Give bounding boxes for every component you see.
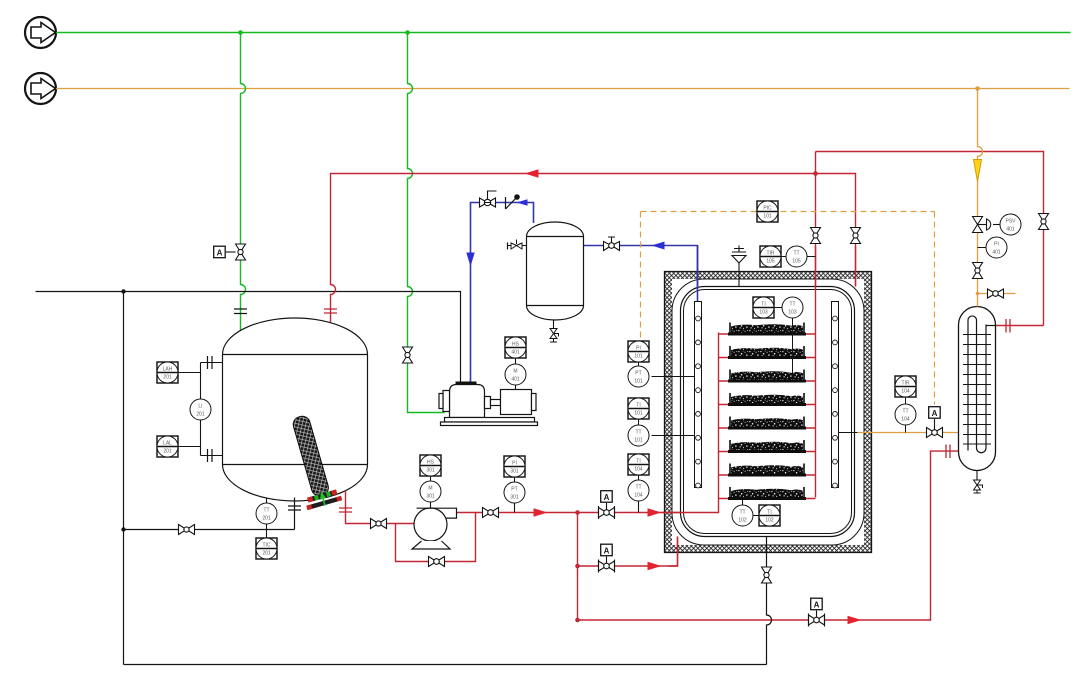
condenser E401 shell bbox=[959, 307, 996, 471]
svg-text:HS: HS bbox=[512, 342, 520, 348]
vessel: tank T201 bbox=[223, 318, 368, 501]
valve on bypass bbox=[429, 557, 445, 567]
instrument TT 101 bbox=[628, 425, 649, 446]
shelf tray 5 bbox=[719, 427, 816, 429]
instrument PI 301 bbox=[504, 456, 525, 482]
svg-text:TT: TT bbox=[793, 251, 799, 257]
svg-text:A: A bbox=[932, 409, 938, 418]
wire: green supply header bbox=[56, 32, 1071, 34]
svg-text:301: 301 bbox=[426, 467, 435, 473]
wire: green drop 1 to tank T201 (jumps orange header and black line) bbox=[241, 33, 246, 331]
svg-text:TI: TI bbox=[761, 302, 765, 308]
heater bundle in tank bbox=[282, 412, 342, 511]
vessel drain valve bbox=[553, 320, 555, 328]
svg-text:TI: TI bbox=[636, 403, 640, 409]
check valve on top loop bbox=[506, 195, 520, 209]
wire: red condenser top nozzle bbox=[996, 325, 1044, 327]
pump P301 (centrifugal) bbox=[412, 508, 457, 549]
svg-text:201: 201 bbox=[163, 374, 172, 380]
off-page connector (green supply) bbox=[25, 17, 56, 48]
shelf tray 8 bbox=[719, 498, 816, 500]
svg-text:104: 104 bbox=[634, 492, 643, 498]
instrument LI 201 bbox=[190, 399, 211, 420]
node: black tee at tank drain bbox=[121, 527, 125, 531]
instrument TIC 201 bbox=[256, 538, 277, 559]
valve on blue line bbox=[604, 237, 620, 251]
shelf tray 2 bbox=[719, 357, 816, 359]
node: red tee at 815,173 bbox=[813, 171, 818, 176]
svg-text:PIC: PIC bbox=[763, 206, 772, 212]
svg-text:PI: PI bbox=[994, 242, 999, 248]
instrument TIR 105 bbox=[760, 246, 781, 267]
valve on oven bottom drop bbox=[762, 567, 772, 583]
arrow blue to vessel bbox=[652, 242, 665, 250]
off-page connector (orange supply) bbox=[25, 73, 56, 104]
wire: black vacuum suction header bbox=[36, 292, 461, 383]
wire: red hot return header to tank (jumps black line) bbox=[331, 174, 856, 323]
svg-text:301: 301 bbox=[510, 468, 519, 474]
arrow blue small on top loop bbox=[517, 199, 528, 206]
svg-text:401: 401 bbox=[992, 249, 1001, 255]
svg-text:PT: PT bbox=[511, 487, 517, 493]
svg-text:A: A bbox=[604, 493, 610, 502]
svg-text:HS: HS bbox=[427, 460, 435, 466]
svg-text:104: 104 bbox=[634, 466, 643, 472]
wire: blue vacuum line vessel to oven bbox=[584, 246, 698, 302]
valve on tank drain bbox=[179, 525, 195, 535]
oven chamber bbox=[681, 287, 855, 537]
svg-text:101: 101 bbox=[634, 437, 643, 443]
wire: orange vent line oven to condenser bbox=[839, 432, 858, 434]
level bridle standpipe bbox=[179, 363, 223, 456]
arrow red into oven supply 1 bbox=[648, 508, 662, 516]
instrument TT 104 (right) bbox=[895, 404, 916, 433]
wire: red from tank heater outlet down to pump P301 bbox=[346, 491, 415, 524]
orange side vent with valve bbox=[978, 293, 1016, 295]
valve on vessel left nozzle bbox=[508, 245, 527, 247]
valve with lever on top loop bbox=[480, 191, 497, 207]
svg-text:401: 401 bbox=[511, 349, 520, 355]
instrument PI 401 bbox=[978, 247, 987, 249]
svg-text:201: 201 bbox=[196, 411, 205, 417]
svg-text:LAH: LAH bbox=[163, 367, 173, 373]
vacuum breaker on oven top bbox=[738, 263, 740, 287]
svg-text:103: 103 bbox=[759, 309, 768, 315]
wire: black left riser bbox=[123, 292, 125, 665]
svg-text:105: 105 bbox=[766, 258, 775, 264]
oven left instrument taps bbox=[652, 377, 695, 436]
shelf tray 7 bbox=[719, 474, 816, 476]
arrow red on return header bbox=[525, 169, 539, 177]
shelf tray 3 bbox=[719, 380, 816, 382]
svg-text:TI: TI bbox=[636, 459, 640, 465]
wire: black tank drain line bbox=[124, 498, 295, 530]
relief valve with PSV bbox=[973, 217, 1001, 233]
instrument TI 101 bbox=[628, 398, 649, 425]
vessel: knockout pot V401 bbox=[527, 222, 584, 320]
svg-text:M: M bbox=[513, 369, 517, 375]
flange ticks red tank nozzle bbox=[324, 309, 337, 313]
wire: red upper header from oven riser bbox=[816, 152, 1044, 326]
instrument TI 103 bbox=[753, 297, 774, 318]
black drop from oven bottom (jumps red line) bbox=[767, 537, 772, 665]
valve on red jacket drop bbox=[851, 228, 861, 244]
svg-text:TT: TT bbox=[902, 409, 908, 415]
svg-text:PI: PI bbox=[512, 461, 517, 467]
instrument LAL 201 bbox=[157, 436, 178, 457]
instrument HS 401 bbox=[505, 337, 526, 364]
instrument TI 104 bbox=[628, 454, 649, 480]
svg-text:101: 101 bbox=[634, 410, 643, 416]
instrument PI 101 bbox=[628, 341, 649, 366]
node: green header tee 1 bbox=[238, 30, 243, 35]
arrow blue down to pump bbox=[466, 253, 474, 267]
wire: red oven supply 2 bbox=[578, 537, 678, 567]
valve on green drop 1 (control, A) bbox=[236, 244, 246, 260]
instrument TT 102 with probe bbox=[742, 500, 744, 505]
svg-text:A: A bbox=[814, 601, 820, 610]
svg-text:201: 201 bbox=[262, 550, 271, 556]
instrument PSV 401 bbox=[1000, 214, 1021, 235]
instrument M 401 with stem bbox=[515, 385, 517, 390]
svg-text:TIR: TIR bbox=[766, 251, 774, 257]
control valve A on oven supply 2 bbox=[599, 557, 615, 573]
control valve A on vent line bbox=[927, 419, 943, 438]
wire: orange drop from header to condenser bbox=[978, 89, 983, 307]
shelf tray 4 bbox=[719, 404, 816, 406]
flange ticks condenser inlet bbox=[946, 445, 950, 459]
valve on condenser red riser bbox=[1039, 214, 1049, 230]
svg-text:101: 101 bbox=[763, 213, 772, 219]
instrument TI 102 bbox=[759, 505, 780, 526]
svg-text:A: A bbox=[217, 249, 223, 258]
instrument TT 201 with stem bbox=[266, 498, 268, 539]
svg-text:TIC: TIC bbox=[262, 543, 270, 549]
svg-text:401: 401 bbox=[1006, 226, 1015, 232]
svg-text:TT: TT bbox=[789, 302, 795, 308]
svg-text:101: 101 bbox=[634, 353, 643, 359]
svg-text:201: 201 bbox=[262, 515, 271, 521]
control valve A on oven supply 1 bbox=[599, 503, 615, 519]
svg-text:A: A bbox=[604, 547, 610, 556]
wire: red drop at 577 bbox=[577, 513, 579, 621]
svg-text:TIR: TIR bbox=[901, 381, 909, 387]
wire: red line to condenser (jumps black drop) bbox=[578, 451, 959, 620]
node: green header tee 2 bbox=[405, 30, 410, 35]
svg-text:104: 104 bbox=[901, 388, 910, 394]
redraw red supply 2 stub inside wall bbox=[669, 537, 678, 567]
svg-text:301: 301 bbox=[510, 494, 519, 500]
wire: red pump discharge to oven bbox=[457, 333, 719, 513]
instrument PT 301 with stem bbox=[514, 503, 516, 513]
redraw red supply 1 inside oven over chamber bbox=[662, 333, 719, 513]
svg-text:PSV: PSV bbox=[1005, 219, 1016, 225]
arrow red on discharge bbox=[534, 508, 548, 516]
valve on orange drop bbox=[973, 263, 983, 279]
valve on pump suction bbox=[371, 519, 387, 529]
instrument HS 301 bbox=[420, 455, 441, 481]
left shelf header bbox=[695, 302, 702, 488]
flange ticks condenser top nozzle bbox=[1006, 319, 1010, 333]
shelf tray 1 bbox=[719, 333, 816, 335]
svg-text:102: 102 bbox=[765, 517, 774, 523]
svg-text:102: 102 bbox=[738, 517, 747, 523]
svg-text:TT: TT bbox=[635, 485, 641, 491]
control valve A on condenser line bbox=[809, 611, 825, 627]
svg-text:TI: TI bbox=[767, 510, 771, 516]
instrument TIR 104 bbox=[895, 376, 916, 404]
svg-text:LI: LI bbox=[198, 404, 202, 410]
svg-text:M: M bbox=[428, 486, 432, 492]
valve on green drop 2 bbox=[403, 347, 413, 363]
svg-text:101: 101 bbox=[634, 378, 643, 384]
flange ticks red heater nozzle bbox=[339, 508, 352, 512]
node: red tee at 577,512 bbox=[575, 510, 580, 515]
instrument PT 101 bbox=[628, 366, 649, 387]
svg-text:PT: PT bbox=[635, 371, 641, 377]
wire: red oven shelf riser bbox=[815, 152, 817, 498]
instrument LAH 201 bbox=[157, 362, 178, 383]
svg-text:401: 401 bbox=[511, 376, 520, 382]
instrument TT 105 bbox=[786, 246, 807, 267]
instrument M 301 with stem bbox=[430, 502, 432, 508]
right shelf header bbox=[832, 302, 839, 488]
node: orange header tee bbox=[975, 86, 980, 91]
wire: blue vessel top loop to vacuum pump bbox=[471, 203, 534, 385]
svg-text:104: 104 bbox=[901, 416, 910, 422]
wire: orange supply header bbox=[56, 88, 1070, 90]
condenser bottom drain bbox=[976, 471, 978, 480]
instrument TT 103 with probe bbox=[782, 297, 803, 318]
valve on shelf riser bbox=[811, 228, 821, 244]
instrument TT 104 (left) with stem bbox=[638, 501, 640, 513]
condenser coil bbox=[968, 316, 996, 453]
signal: orange dashed PIC101 loop bbox=[641, 211, 935, 213]
vacuum pump V401 bbox=[439, 385, 538, 426]
svg-text:LAL: LAL bbox=[163, 441, 172, 447]
svg-text:PI: PI bbox=[636, 346, 641, 352]
oven insulated wall bbox=[665, 272, 872, 553]
header nozzle circles bbox=[696, 316, 838, 488]
arrow red into oven supply 2 bbox=[648, 562, 662, 570]
instrument PIC 101 bbox=[757, 201, 778, 222]
svg-text:301: 301 bbox=[426, 493, 435, 499]
redraw red shelf riser through wall bbox=[815, 247, 817, 498]
svg-text:TT: TT bbox=[635, 430, 641, 436]
wire: green drop 2 to vacuum pump (jumps orange, red, black lines) bbox=[408, 33, 445, 413]
flange ticks tank bottom nozzle bbox=[288, 506, 301, 510]
redraw red jacket drop through wall bbox=[855, 247, 857, 287]
flange ticks green drop 1 at tank bbox=[234, 309, 247, 314]
svg-text:TT: TT bbox=[263, 508, 269, 514]
svg-text:103: 103 bbox=[788, 309, 797, 315]
blue vacuum leg into chamber bbox=[697, 246, 699, 302]
node: black tee at suction header bbox=[121, 289, 125, 293]
svg-text:TT: TT bbox=[739, 510, 745, 516]
wire: black bottom return from oven bbox=[124, 664, 767, 666]
svg-text:105: 105 bbox=[792, 258, 801, 264]
arrow orange/yellow down bbox=[974, 160, 982, 182]
shelf tray 6 bbox=[719, 451, 816, 453]
valve on discharge bbox=[483, 508, 499, 518]
arrow red to condenser bbox=[848, 616, 862, 624]
wire: red pump bypass bbox=[396, 513, 476, 562]
svg-text:201: 201 bbox=[163, 448, 172, 454]
